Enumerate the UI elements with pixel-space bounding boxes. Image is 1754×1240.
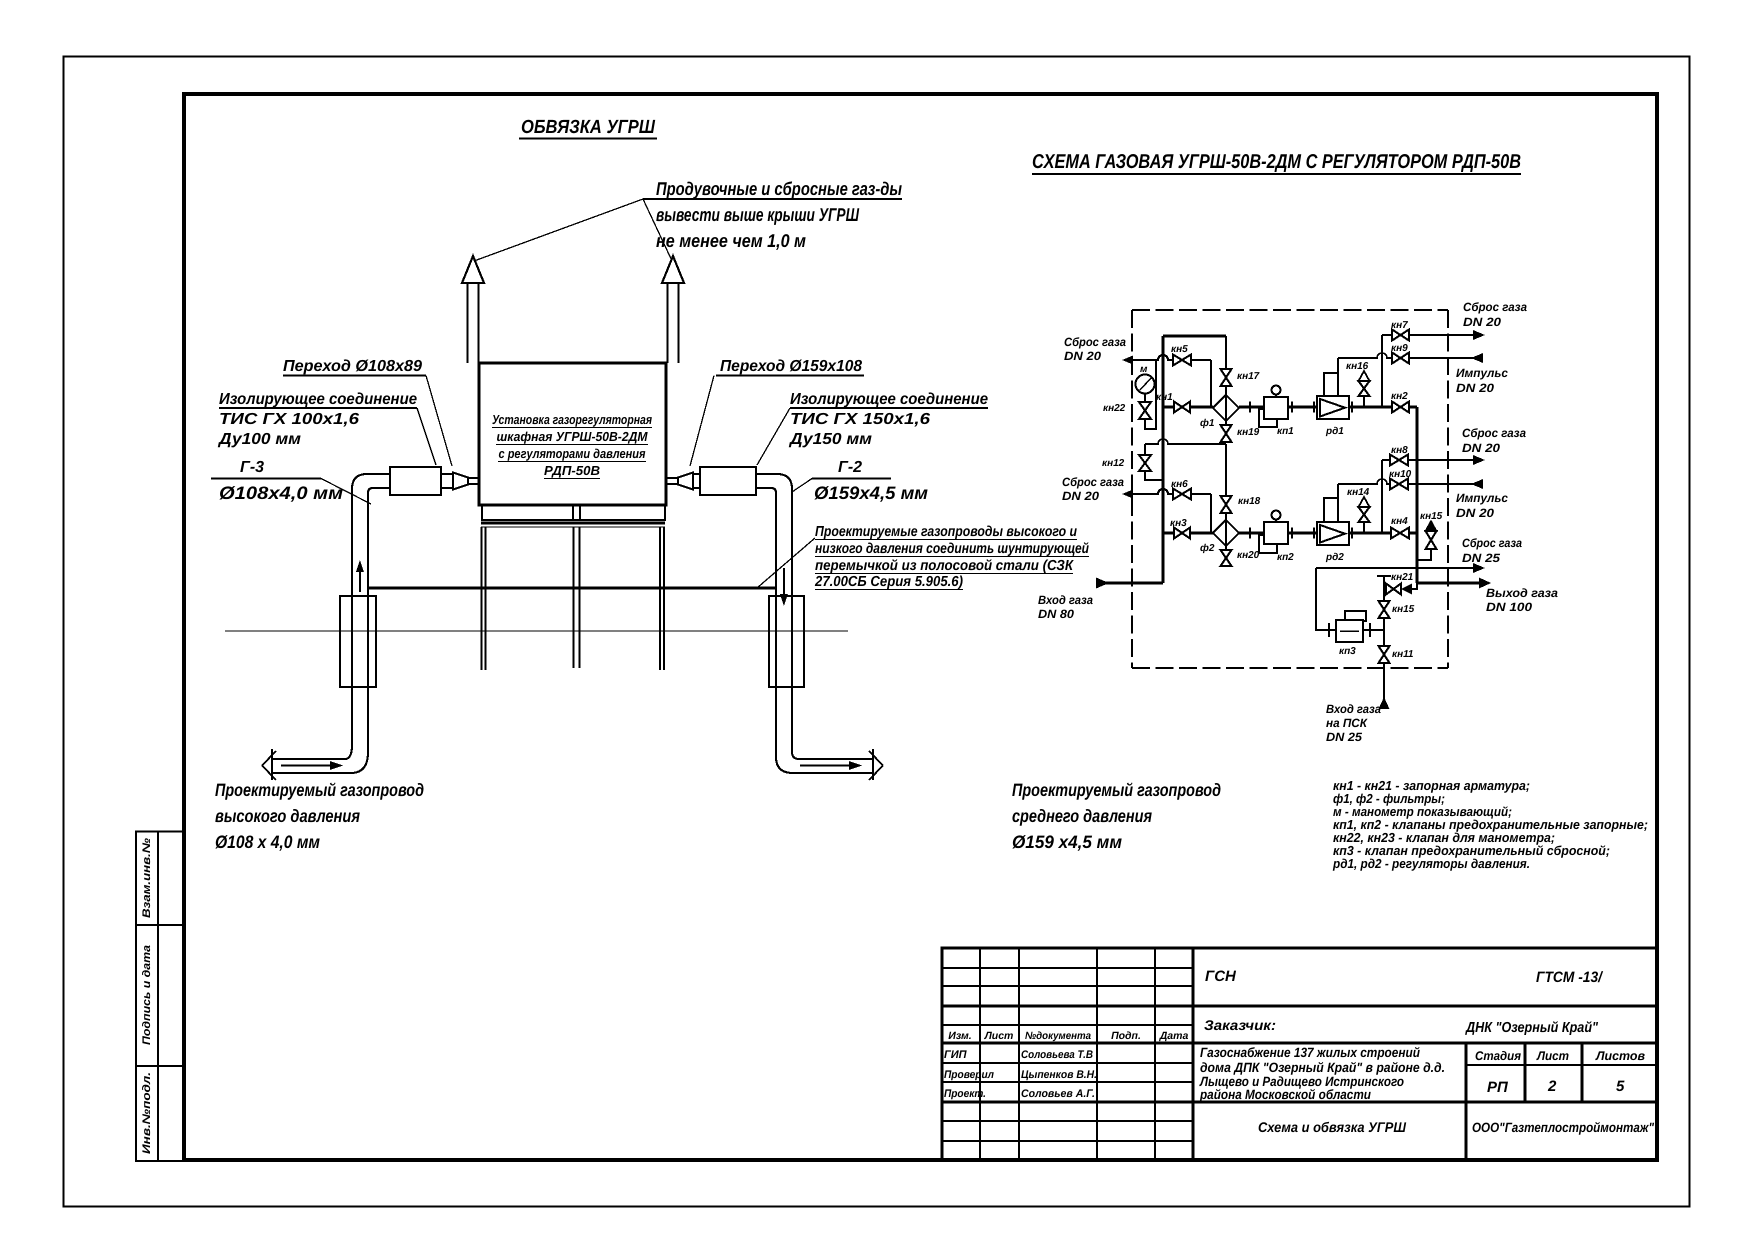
svg-text:кн10: кн10 [1389, 469, 1412, 480]
svg-text:2: 2 [1547, 1078, 1557, 1095]
svg-text:низкого давления соединить шун: низкого давления соединить шунтирующей [815, 541, 1089, 557]
inlet header vertical V1 [1162, 336, 1165, 583]
schematic title [1032, 151, 1521, 174]
svg-text:Газоснабжение 137 жилых строен: Газоснабжение 137 жилых строений [1200, 1045, 1421, 1060]
svg-text:рд1: рд1 [1325, 426, 1344, 437]
svg-text:кн14: кн14 [1347, 487, 1370, 498]
pressure regulator рд1 [1317, 396, 1349, 437]
relief valve кн16 on line 1 [1346, 361, 1370, 407]
svg-text:Проектируемые газопроводы выс: Проектируемые газопроводы высокого и [815, 524, 1077, 540]
Сброс газа DN 25 line [1316, 536, 1522, 573]
filter ф2 [1200, 520, 1239, 554]
svg-text:кн20: кн20 [1237, 550, 1260, 561]
svg-text:кн6: кн6 [1171, 479, 1188, 490]
valve кн2 [1392, 402, 1409, 413]
right sleeve casing [769, 596, 804, 687]
svg-text:ТИС ГХ 100х1,6: ТИС ГХ 100х1,6 [219, 411, 359, 428]
svg-text:5: 5 [1616, 1078, 1625, 1095]
stand top rails [481, 522, 665, 525]
drain valve кн20 [1221, 546, 1260, 566]
svg-text:Г-2: Г-2 [838, 459, 862, 476]
svg-text:DN 20: DN 20 [1064, 349, 1101, 363]
svg-text:Импульс: Импульс [1456, 491, 1508, 505]
svg-text:Листов: Листов [1595, 1049, 1645, 1063]
main line 2 (lower run) [1163, 532, 1417, 535]
svg-text:кп3: кп3 [1339, 646, 1356, 657]
cabinet label text [492, 412, 652, 478]
dashed cabinet boundary box [1132, 310, 1448, 668]
svg-text:Ø159х4,5 мм: Ø159х4,5 мм [814, 483, 928, 503]
svg-text:DN 100: DN 100 [1486, 600, 1532, 614]
label Изолирующее соединение right [757, 391, 988, 465]
svg-text:Изм.: Изм. [948, 1030, 972, 1042]
svg-text:Ø108х4,0 мм: Ø108х4,0 мм [219, 483, 343, 503]
relief valve кн15 upper [1417, 511, 1443, 560]
svg-text:кн3: кн3 [1170, 518, 1187, 529]
svg-text:Подпись и дата: Подпись и дата [141, 945, 153, 1045]
svg-text:Переход Ø108х89: Переход Ø108х89 [283, 358, 422, 375]
right vent arrow [662, 256, 684, 283]
svg-text:кн22: кн22 [1103, 403, 1126, 414]
main line 1 (upper run) [1163, 406, 1417, 409]
valve кн4 [1391, 528, 1409, 539]
bypass valve кн18 [1221, 444, 1261, 520]
right riser flow arrow (down) [780, 568, 788, 606]
shunt note text block [757, 524, 1089, 590]
top bypass line [1163, 335, 1226, 338]
left pipe flow arrow [281, 761, 343, 770]
left pipe end break + open arrow [262, 749, 276, 780]
svg-text:Сброс газа: Сброс газа [1062, 475, 1124, 489]
кп3 relief loop [1316, 568, 1384, 637]
svg-text:Ду100 мм: Ду100 мм [217, 431, 301, 448]
left vent pipe [468, 283, 479, 363]
title block texts [944, 968, 1655, 1135]
svg-text:DN 20: DN 20 [1456, 506, 1494, 520]
svg-text:СХЕМА ГАЗОВАЯ УГРШ-50В-2ДМ С: СХЕМА ГАЗОВАЯ УГРШ-50В-2ДМ С РЕГУЛЯТОРОМ… [1032, 151, 1521, 173]
svg-text:ф1: ф1 [1200, 418, 1215, 429]
leader line to right vent arrow [643, 199, 673, 263]
label Сброс газа DN 20 right top [1463, 300, 1527, 329]
svg-text:кн4: кн4 [1391, 516, 1408, 527]
svg-text:Сброс газа: Сброс газа [1462, 426, 1526, 440]
svg-text:Сброс газа: Сброс газа [1462, 536, 1522, 550]
svg-text:DN 20: DN 20 [1463, 315, 1501, 329]
svg-text:Переход Ø159х108: Переход Ø159х108 [720, 358, 862, 375]
pressure regulator рд2 [1317, 522, 1349, 563]
svg-text:Вход газа: Вход газа [1038, 593, 1093, 607]
valve кн11 [1379, 646, 1414, 663]
svg-text:кн8: кн8 [1391, 445, 1408, 456]
Выход газа DN 100 outlet [1417, 578, 1558, 615]
svg-text:кп1: кп1 [1277, 426, 1294, 437]
svg-text:ТИС ГХ 150х1,6: ТИС ГХ 150х1,6 [790, 411, 930, 428]
label left projected gas line [215, 780, 424, 852]
svg-text:Сброс газа: Сброс газа [1064, 335, 1126, 349]
svg-text:района Московской области: района Московской области [1199, 1087, 1372, 1102]
svg-text:DN 25: DN 25 [1326, 730, 1362, 744]
left riser flow arrow (up) [356, 560, 364, 592]
svg-text:высокого давления: высокого давления [215, 806, 360, 826]
stand legs [482, 527, 665, 670]
label Вход газа DN 80 [1038, 593, 1093, 621]
outlet riser V2a with Сброс line кн7 [1382, 320, 1485, 407]
svg-text:Ø159 х4,5 мм: Ø159 х4,5 мм [1012, 832, 1122, 852]
inlet arrow [1096, 578, 1109, 589]
svg-text:ГИП: ГИП [944, 1049, 968, 1061]
label Сброс газа DN 20 mid-left [1062, 475, 1124, 503]
drain line D [1145, 439, 1226, 444]
label Вход газа на ПСК DN 25 [1326, 702, 1381, 744]
svg-text:кн16: кн16 [1346, 361, 1369, 372]
safety shut-off valve кп1 [1259, 386, 1294, 438]
svg-text:Установка газорегуляторная: Установка газорегуляторная [492, 412, 652, 427]
relief valve кп3 [1336, 611, 1366, 657]
drawing title ОБВЯЗКА УГРШ [519, 117, 657, 139]
svg-text:Вход газа: Вход газа [1326, 702, 1381, 716]
left reducer cone [453, 473, 468, 490]
ПСК inlet arrow [1379, 697, 1390, 709]
svg-text:перемычкой из полосовой стали: перемычкой из полосовой стали (СЗК [815, 558, 1074, 574]
svg-text:ОБВЯЗКА УГРШ: ОБВЯЗКА УГРШ [521, 117, 655, 138]
left sleeve casing [340, 596, 376, 687]
filter ф1 [1200, 395, 1239, 429]
svg-text:ДНК "Озерный Край": ДНК "Озерный Край" [1464, 1020, 1599, 1036]
main drawing frame [184, 94, 1657, 1160]
label Г-2 [792, 459, 928, 503]
label Переход Ø108х89 [283, 358, 452, 466]
svg-text:Соловьева Т.В: Соловьева Т.В [1021, 1049, 1093, 1061]
manometer м [1136, 364, 1155, 402]
label Импульс DN 20 upper [1456, 366, 1508, 395]
svg-text:кн15: кн15 [1392, 604, 1415, 615]
svg-text:Соловьев А.Г.: Соловьев А.Г. [1021, 1088, 1095, 1100]
svg-text:Стадия: Стадия [1475, 1049, 1522, 1063]
label Г-3 [211, 459, 371, 504]
svg-text:Проектируемый газопровод: Проектируемый газопровод [215, 780, 424, 800]
svg-text:с регуляторами давления: с регуляторами давления [499, 446, 646, 461]
svg-text:кн17: кн17 [1237, 371, 1260, 382]
svg-text:кн18: кн18 [1238, 496, 1261, 507]
svg-text:рд1, рд2 - регуляторы давлени: рд1, рд2 - регуляторы давления. [1332, 856, 1530, 871]
svg-text:кн9: кн9 [1391, 343, 1408, 354]
svg-text:вывести выше крыши УГРШ: вывести выше крыши УГРШ [656, 204, 860, 225]
svg-text:кн11: кн11 [1392, 649, 1414, 660]
title block outer thick border [942, 948, 1657, 1160]
svg-text:Сброс газа: Сброс газа [1463, 300, 1527, 314]
label Изолирующее соединение left [217, 391, 436, 465]
svg-text:Лист: Лист [984, 1030, 1014, 1042]
relief valve кн14 on line 2 [1347, 487, 1370, 533]
right pipe flow arrow [800, 761, 862, 770]
svg-text:Г-3: Г-3 [240, 459, 264, 476]
blowdown line with кн6 [1122, 479, 1211, 533]
svg-text:РДП-50В: РДП-50В [544, 463, 600, 478]
flange ticks line 2 [1250, 528, 1352, 539]
svg-text:дома ДПК "Озерный Край" в райо: дома ДПК "Озерный Край" в районе д.д. [1200, 1060, 1445, 1075]
svg-text:DN 20: DN 20 [1456, 381, 1494, 395]
svg-text:кн15: кн15 [1420, 511, 1443, 522]
valve кн15 lower [1379, 601, 1415, 618]
bypass valve кн17 [1221, 336, 1260, 395]
right reducer cone [678, 473, 693, 490]
left riser and pipes [272, 474, 453, 773]
leader line to left vent arrow [474, 199, 643, 261]
svg-text:DN 20: DN 20 [1462, 441, 1500, 455]
outlet header V4 [1415, 407, 1418, 583]
svg-text:Дата: Дата [1159, 1030, 1189, 1042]
impulse line кн10 to рд2 [1324, 469, 1483, 522]
left isolating joint [390, 467, 441, 495]
svg-text:не менее чем 1,0 м: не менее чем 1,0 м [656, 230, 806, 251]
valve column V5 (кн15 lower / кн11) [1377, 576, 1391, 699]
svg-text:Ду150 мм: Ду150 мм [788, 431, 872, 448]
svg-text:Инв.№подл.: Инв.№подл. [141, 1072, 153, 1154]
svg-text:кн12: кн12 [1102, 458, 1125, 469]
impulse line кн9 to рд1 [1324, 343, 1483, 396]
svg-text:ГСН: ГСН [1205, 968, 1237, 985]
blowdown line with кн5 [1122, 344, 1211, 407]
svg-text:DN 80: DN 80 [1038, 607, 1074, 621]
valve кн3 [1174, 528, 1190, 539]
svg-text:Изолирующее соединение: Изолирующее соединение [219, 391, 417, 408]
right isolating joint [700, 467, 756, 495]
right pipe end break + open arrow [869, 749, 883, 780]
svg-text:кн7: кн7 [1391, 320, 1408, 331]
outlet riser V2b with Сброс line кн8 [1382, 445, 1485, 533]
svg-text:кн21: кн21 [1391, 572, 1414, 583]
label Переход Ø159х108 right [690, 358, 864, 466]
svg-text:шкафная УГРШ-50В-2ДМ: шкафная УГРШ-50В-2ДМ [497, 429, 649, 444]
cabinet УГРШ box [479, 363, 666, 505]
valve кн12 [1102, 444, 1163, 480]
right vent pipe [668, 283, 679, 363]
svg-text:DN 25: DN 25 [1462, 551, 1500, 565]
svg-text:Схема и обвязка УГРШ: Схема и обвязка УГРШ [1258, 1119, 1406, 1135]
svg-text:м: м [1140, 364, 1148, 375]
svg-text:Выход газа: Выход газа [1486, 586, 1558, 600]
svg-text:Взам.инв.№: Взам.инв.№ [141, 838, 153, 918]
svg-text:среднего давления: среднего давления [1012, 806, 1152, 826]
svg-text:Импульс: Импульс [1456, 366, 1508, 380]
label Импульс DN 20 lower [1456, 491, 1508, 520]
svg-text:кн19: кн19 [1237, 427, 1260, 438]
right riser and pipes [693, 474, 873, 773]
svg-text:Продувочные и сбросные газ-ды: Продувочные и сбросные газ-ды [656, 178, 902, 199]
svg-text:Проектируемый газопровод: Проектируемый газопровод [1012, 780, 1221, 800]
svg-text:Лист: Лист [1536, 1049, 1569, 1063]
legend text [1332, 778, 1648, 871]
valve кн21 with arrow [1386, 572, 1417, 595]
svg-text:рд2: рд2 [1325, 552, 1344, 563]
svg-text:РП: РП [1487, 1079, 1509, 1096]
label right projected gas line [1012, 780, 1221, 852]
svg-text:Ø108 х 4,0 мм: Ø108 х 4,0 мм [215, 832, 320, 852]
svg-text:DN 20: DN 20 [1062, 489, 1099, 503]
safety shut-off valve кп2 [1259, 511, 1294, 564]
valve кн1 [1174, 402, 1190, 413]
svg-text:на ПСК: на ПСК [1326, 716, 1369, 730]
inlet gas line DN80 [1096, 582, 1163, 585]
title block grid lines [941, 947, 1658, 1161]
svg-text:Проверил: Проверил [944, 1069, 994, 1081]
svg-text:Проект.: Проект. [944, 1088, 986, 1100]
svg-text:кн1: кн1 [1156, 392, 1173, 403]
svg-text:№документа: №документа [1025, 1030, 1091, 1042]
note: vent pipes above roof [643, 178, 902, 251]
valve кн22 [1103, 360, 1156, 429]
label Сброс газа DN 20 right mid [1462, 426, 1526, 455]
left vent arrow [462, 256, 484, 283]
left side vertical strip (Взам.инв.№ / Подпись и дата / Инв.№подл.) [136, 832, 183, 1162]
cabinet base band [482, 505, 665, 520]
svg-text:кп2: кп2 [1277, 552, 1294, 563]
svg-text:27.00СБ Серия 5.905.6): 27.00СБ Серия 5.905.6) [814, 574, 963, 590]
svg-text:ГТСМ -13/: ГТСМ -13/ [1536, 969, 1604, 986]
drain valve кн19 [1221, 421, 1260, 442]
svg-text:ф2: ф2 [1200, 543, 1215, 554]
svg-text:кн5: кн5 [1171, 344, 1188, 355]
svg-text:Цыпенков В.Н.: Цыпенков В.Н. [1021, 1069, 1097, 1081]
svg-text:Заказчик:: Заказчик: [1204, 1017, 1276, 1033]
svg-text:Подп.: Подп. [1111, 1030, 1141, 1042]
label Сброс газа DN 20 top-left [1064, 335, 1126, 363]
flange ticks line 1 [1250, 402, 1352, 413]
shunt jumper bar between risers [368, 587, 776, 590]
svg-text:ООО"Газтеплостроймонтаж": ООО"Газтеплостроймонтаж" [1472, 1120, 1655, 1135]
svg-text:кн2: кн2 [1391, 391, 1408, 402]
svg-text:Изолирующее соединение: Изолирующее соединение [790, 391, 988, 408]
ground line [225, 630, 848, 632]
